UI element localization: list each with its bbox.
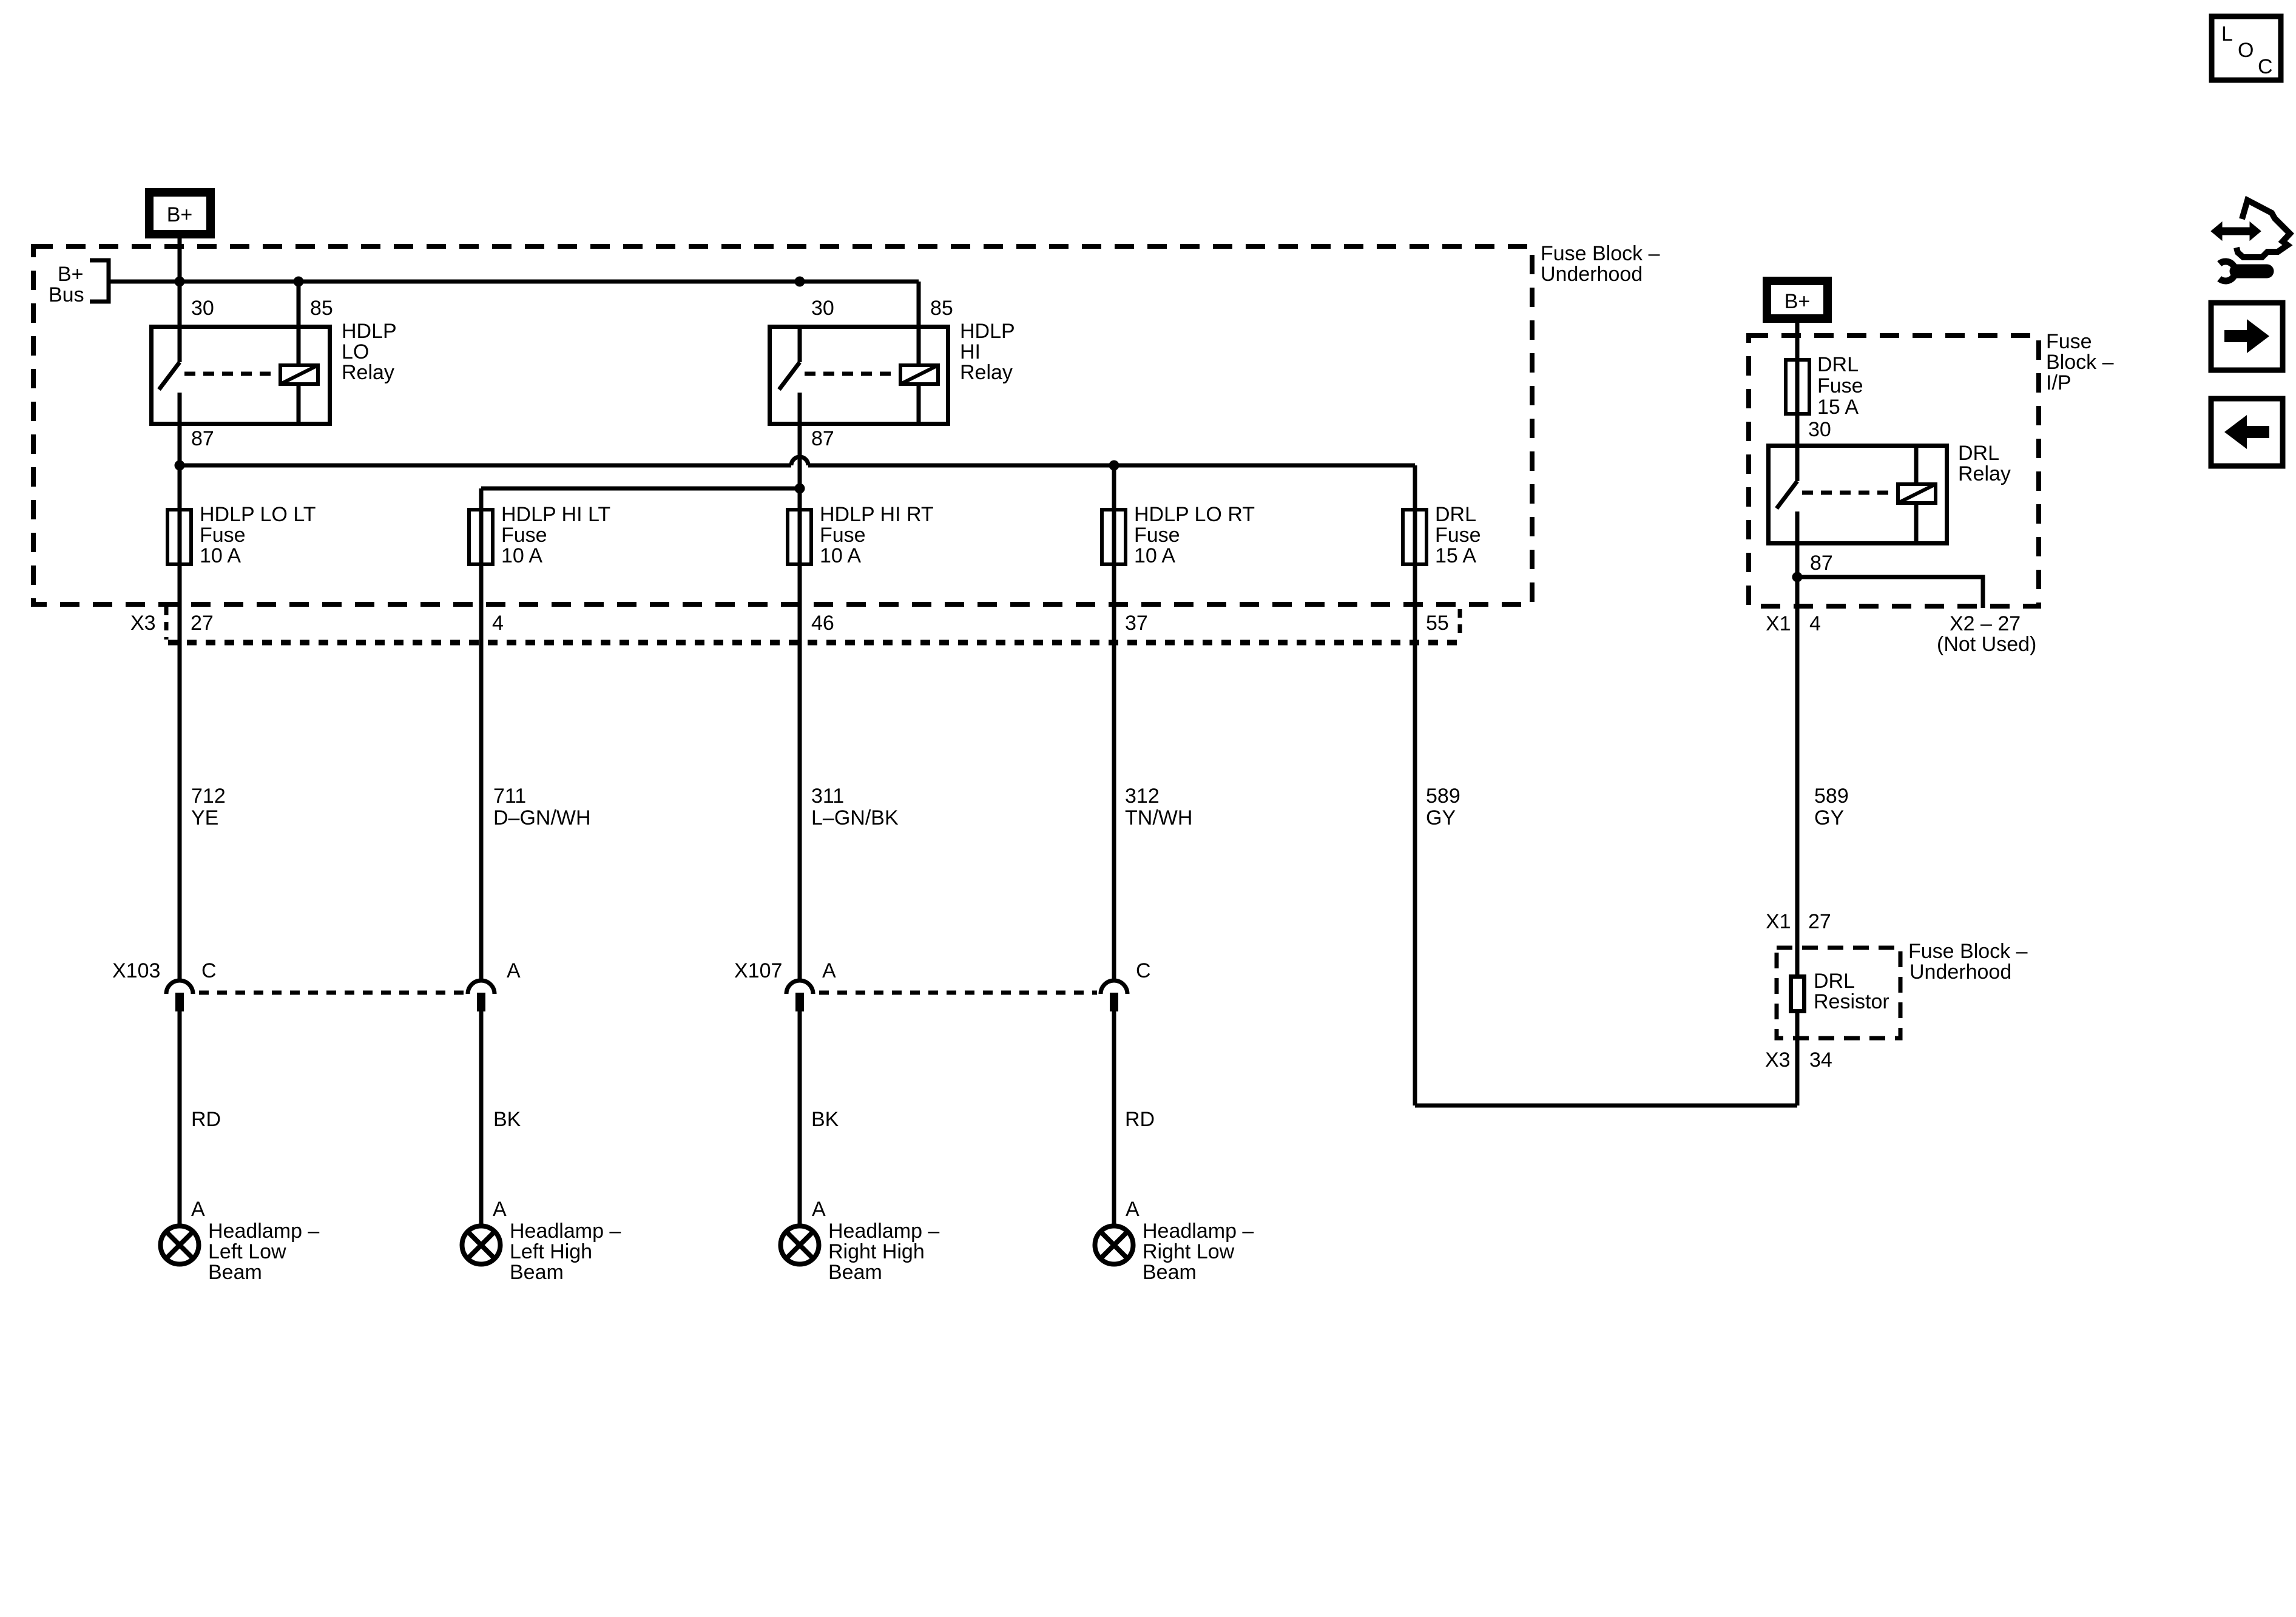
label circuit 589 GY (left) [1426, 785, 1460, 829]
label Headlamp - Left Low Beam [208, 1220, 319, 1284]
svg-text:L: L [2221, 22, 2233, 46]
node: 87 feed at HDLP LO RT column [1109, 461, 1119, 471]
node: bus at HDLP LO relay pin 30 [175, 277, 185, 287]
label HDLP LO RT Fuse 10 A [1134, 503, 1255, 567]
svg-text:X103: X103 [112, 959, 160, 982]
label HDLP HI RT Fuse 10 A [820, 503, 934, 567]
svg-text:GY: GY [1814, 806, 1844, 829]
B+ power symbol (right) [1767, 281, 1828, 319]
label circuit 589 GY (right) [1814, 785, 1849, 829]
svg-text:4: 4 [492, 612, 504, 635]
svg-text:(Not Used): (Not Used) [1937, 633, 2036, 656]
svg-text:85: 85 [930, 297, 953, 320]
svg-text:30: 30 [811, 297, 834, 320]
wire: B+ drop to DRL fuse [1795, 319, 1800, 444]
svg-text:Beam: Beam [1143, 1261, 1197, 1284]
wire: DRL relay 87 drop [1795, 545, 1800, 974]
svg-text:Headlamp –: Headlamp – [208, 1220, 319, 1243]
connector X3 row of Fuse Block - Underhood [166, 607, 1460, 643]
svg-text:27: 27 [191, 612, 214, 635]
LOC icon box [2212, 16, 2281, 80]
wire: LO relay 87 feed line (right part) [808, 464, 1415, 468]
svg-text:4: 4 [1809, 612, 1821, 635]
wire: B+ bus horizontal [109, 280, 919, 284]
svg-text:Fuse: Fuse [200, 524, 246, 547]
svg-text:C: C [2258, 55, 2273, 78]
svg-text:Relay: Relay [960, 361, 1013, 384]
label Fuse Block - Underhood (resistor box) [1908, 940, 2028, 984]
B+ Bus tap [49, 260, 109, 306]
label circuit 712 YE [191, 785, 226, 829]
svg-text:589: 589 [1814, 785, 1849, 808]
svg-text:DRL: DRL [1817, 353, 1859, 376]
lamp E1 Headlamp Left Low Beam [161, 1226, 199, 1264]
svg-text:DRL: DRL [1814, 970, 1855, 993]
svg-text:10 A: 10 A [501, 544, 542, 567]
svg-text:X3: X3 [1765, 1048, 1791, 1072]
wire: BK lamp lead (left high) [479, 1011, 484, 1224]
back arrow icon box [2211, 399, 2283, 466]
forward arrow icon box [2211, 303, 2283, 370]
wire: resistor output drop [1795, 1013, 1800, 1106]
label circuit 311 L-GN/BK [811, 785, 899, 829]
svg-text:HDLP: HDLP [342, 320, 397, 343]
svg-text:30: 30 [191, 297, 214, 320]
svg-text:Left High: Left High [510, 1240, 592, 1263]
label Fuse Block - Underhood [1541, 242, 1660, 286]
node: DRL 87 branch [1792, 572, 1803, 582]
label Fuse Block - I/P [2046, 330, 2114, 394]
label Headlamp - Left High Beam [510, 1220, 621, 1284]
label Headlamp - Right Low Beam [1143, 1220, 1254, 1284]
label DRL Relay [1958, 442, 2011, 485]
wire: BK lamp lead (right high) [798, 1011, 802, 1224]
svg-text:712: 712 [191, 785, 226, 808]
svg-text:34: 34 [1809, 1048, 1832, 1072]
svg-text:DRL: DRL [1435, 503, 1476, 526]
svg-text:Bus: Bus [49, 283, 84, 306]
wire hop over HDLP HI RT wire [791, 457, 808, 465]
svg-text:BK: BK [811, 1108, 839, 1131]
wire: circuit 712 drop [178, 566, 182, 981]
svg-text:Relay: Relay [1958, 462, 2011, 485]
svg-text:Beam: Beam [828, 1261, 882, 1284]
node: 87 feed at HDLP LO LT column [175, 461, 185, 471]
svg-text:Headlamp –: Headlamp – [828, 1220, 939, 1243]
svg-text:589: 589 [1426, 785, 1460, 808]
svg-text:X3: X3 [130, 612, 156, 635]
node: HI 87 link at HDLP HI RT column [795, 484, 805, 494]
wire: 589 link line to DRL resistor output [1415, 1104, 1797, 1108]
Fuse Block - Underhood dashed box [33, 246, 1532, 604]
svg-text:Fuse: Fuse [1134, 524, 1180, 547]
svg-text:A: A [507, 959, 521, 982]
diagnostic icon (double arrow, outline, wrench) [2211, 200, 2290, 281]
svg-text:Relay: Relay [342, 361, 394, 384]
svg-text:85: 85 [310, 297, 333, 320]
svg-text:Beam: Beam [510, 1261, 564, 1284]
svg-text:Fuse: Fuse [2046, 330, 2092, 353]
svg-text:B+: B+ [167, 203, 193, 226]
svg-text:X1: X1 [1766, 910, 1791, 933]
fuse F1 HDLP LO LT 10A [167, 508, 191, 566]
dashed link X107 A to C [819, 991, 1097, 995]
svg-text:DRL: DRL [1958, 442, 1999, 465]
node: bus at HDLP LO relay pin 85 [294, 277, 304, 287]
svg-text:311: 311 [811, 785, 844, 808]
wire: B+ drop to bus [178, 237, 182, 325]
wire: circuit 589 drop from DRL fuse [1413, 566, 1417, 1106]
svg-text:46: 46 [811, 612, 834, 635]
svg-text:87: 87 [1810, 552, 1833, 575]
svg-text:87: 87 [811, 427, 834, 450]
svg-text:10 A: 10 A [200, 544, 241, 567]
svg-text:TN/WH: TN/WH [1125, 806, 1192, 829]
svg-text:LO: LO [342, 340, 369, 363]
svg-text:A: A [812, 1198, 826, 1221]
svg-text:Fuse: Fuse [1817, 374, 1863, 397]
svg-text:Headlamp –: Headlamp – [510, 1220, 621, 1243]
svg-text:Headlamp –: Headlamp – [1143, 1220, 1254, 1243]
svg-text:O: O [2238, 39, 2254, 62]
svg-text:Resistor: Resistor [1814, 990, 1889, 1013]
svg-text:Underhood: Underhood [1541, 263, 1643, 286]
wire: HI relay 87 drop [798, 426, 802, 508]
wire: LO relay 87 feed line (left part) [180, 464, 791, 468]
wire: branch to X2-27 (not used) [1797, 577, 1983, 608]
label DRL Resistor [1814, 970, 1889, 1013]
wire: 87 feed corner drop to DRL fuse [1413, 465, 1417, 508]
lamp E3 Headlamp Right High Beam [781, 1226, 819, 1264]
wire: HI 87 link line to HDLP HI LT fuse [481, 487, 800, 491]
label HDLP HI LT Fuse 10 A [501, 503, 610, 567]
svg-text:10 A: 10 A [820, 544, 861, 567]
wire: RD lamp lead (left low) [178, 1011, 182, 1224]
wire: RD lamp lead (right low) [1112, 1011, 1116, 1224]
svg-text:HDLP HI RT: HDLP HI RT [820, 503, 934, 526]
label HDLP LO Relay [342, 320, 397, 384]
relay K3 DRL Relay [1769, 444, 1947, 545]
relay K1 HDLP LO Relay [152, 325, 330, 426]
svg-text:B+: B+ [58, 263, 84, 286]
svg-text:711: 711 [493, 785, 526, 808]
svg-text:HDLP LO RT: HDLP LO RT [1134, 503, 1255, 526]
svg-text:C: C [201, 959, 217, 982]
svg-text:87: 87 [191, 427, 214, 450]
relay K2 HDLP HI Relay [770, 325, 948, 426]
label DRL Fuse 15 A [1435, 503, 1481, 567]
svg-text:X1: X1 [1766, 612, 1791, 635]
lamp E4 Headlamp Right Low Beam [1095, 1226, 1133, 1264]
fuse F6 DRL 15A (I/P) [1786, 360, 1809, 414]
svg-text:HDLP: HDLP [960, 320, 1015, 343]
node: bus at HDLP HI relay pin 30 [795, 277, 805, 287]
Fuse Block - I/P dashed box [1749, 336, 2039, 606]
lamp E2 Headlamp Left High Beam [462, 1226, 501, 1264]
label circuit 312 TN/WH [1125, 785, 1192, 829]
wire: bus corner drop to HI relay pin 85 [917, 282, 921, 365]
svg-text:Fuse: Fuse [1435, 524, 1481, 547]
svg-text:A: A [191, 1198, 205, 1221]
fuse F4 HDLP LO RT 10A [1102, 508, 1126, 566]
B+ power symbol (left) [149, 192, 211, 234]
svg-text:D–GN/WH: D–GN/WH [493, 806, 591, 829]
wire: circuit 311 drop [798, 566, 802, 981]
wire: 87 feed drop to HDLP LO RT fuse [1112, 465, 1116, 508]
svg-text:B+: B+ [1784, 290, 1811, 313]
svg-text:30: 30 [1808, 418, 1831, 441]
wire: circuit 711 drop [479, 566, 484, 981]
connector X107 (A terminal, column 3) [786, 981, 813, 1011]
svg-text:A: A [1126, 1198, 1140, 1221]
wire: bus drop to LO relay pin 85 [297, 282, 301, 365]
svg-text:Fuse Block –: Fuse Block – [1541, 242, 1660, 265]
svg-text:Beam: Beam [208, 1261, 262, 1284]
fuse F3 HDLP HI RT 10A [788, 508, 811, 566]
svg-text:15 A: 15 A [1817, 396, 1859, 419]
svg-text:L–GN/BK: L–GN/BK [811, 806, 899, 829]
svg-text:Fuse Block –: Fuse Block – [1908, 940, 2028, 963]
svg-text:I/P: I/P [2046, 371, 2071, 394]
svg-text:312: 312 [1125, 785, 1160, 808]
connector X103 (A terminal, column 2) [468, 981, 495, 1011]
Fuse Block - Underhood dashed box (DRL resistor) [1777, 948, 1900, 1038]
wire: LO 87 drop to HDLP LO LT fuse [178, 426, 182, 508]
svg-text:HDLP LO LT: HDLP LO LT [200, 503, 316, 526]
svg-text:C: C [1136, 959, 1151, 982]
svg-text:37: 37 [1125, 612, 1148, 635]
svg-text:X107: X107 [734, 959, 782, 982]
connector X107 (C terminal, column 4) [1101, 981, 1127, 1011]
svg-text:HDLP HI LT: HDLP HI LT [501, 503, 610, 526]
svg-text:Right High: Right High [828, 1240, 925, 1263]
svg-text:Right Low: Right Low [1143, 1240, 1235, 1263]
svg-text:RD: RD [1125, 1108, 1155, 1131]
svg-text:Fuse: Fuse [501, 524, 547, 547]
svg-text:RD: RD [191, 1108, 221, 1131]
svg-text:BK: BK [493, 1108, 521, 1131]
svg-text:Underhood: Underhood [1909, 960, 2011, 984]
svg-text:10 A: 10 A [1134, 544, 1175, 567]
label X2 - 27 (Not Used) [1937, 612, 2036, 656]
svg-text:A: A [493, 1198, 507, 1221]
label DRL Fuse 15 A (I/P) [1817, 353, 1863, 419]
svg-text:HI: HI [960, 340, 981, 363]
wire: HDLP HI LT fuse drop [479, 488, 484, 508]
svg-text:YE: YE [191, 806, 218, 829]
label HDLP LO LT Fuse 10 A [200, 503, 316, 567]
svg-text:X2 – 27: X2 – 27 [1950, 612, 2021, 635]
svg-text:Left Low: Left Low [208, 1240, 286, 1263]
svg-text:GY: GY [1426, 806, 1456, 829]
wire: circuit 312 drop [1112, 566, 1116, 981]
label HDLP HI Relay [960, 320, 1015, 384]
svg-text:55: 55 [1426, 612, 1449, 635]
connector X103 (C terminal, column 1) [166, 981, 193, 1011]
svg-text:A: A [822, 959, 836, 982]
fuse F5 DRL 15A [1403, 508, 1427, 566]
dashed link X103 C to A [199, 991, 465, 995]
svg-text:15 A: 15 A [1435, 544, 1476, 567]
resistor DRL Resistor [1791, 977, 1805, 1011]
label circuit 711 D-GN/WH [493, 785, 591, 829]
label Headlamp - Right High Beam [828, 1220, 939, 1284]
svg-text:Block –: Block – [2046, 351, 2114, 374]
svg-text:Fuse: Fuse [820, 524, 866, 547]
fuse F2 HDLP HI LT 10A [469, 508, 493, 566]
svg-text:27: 27 [1808, 910, 1831, 933]
